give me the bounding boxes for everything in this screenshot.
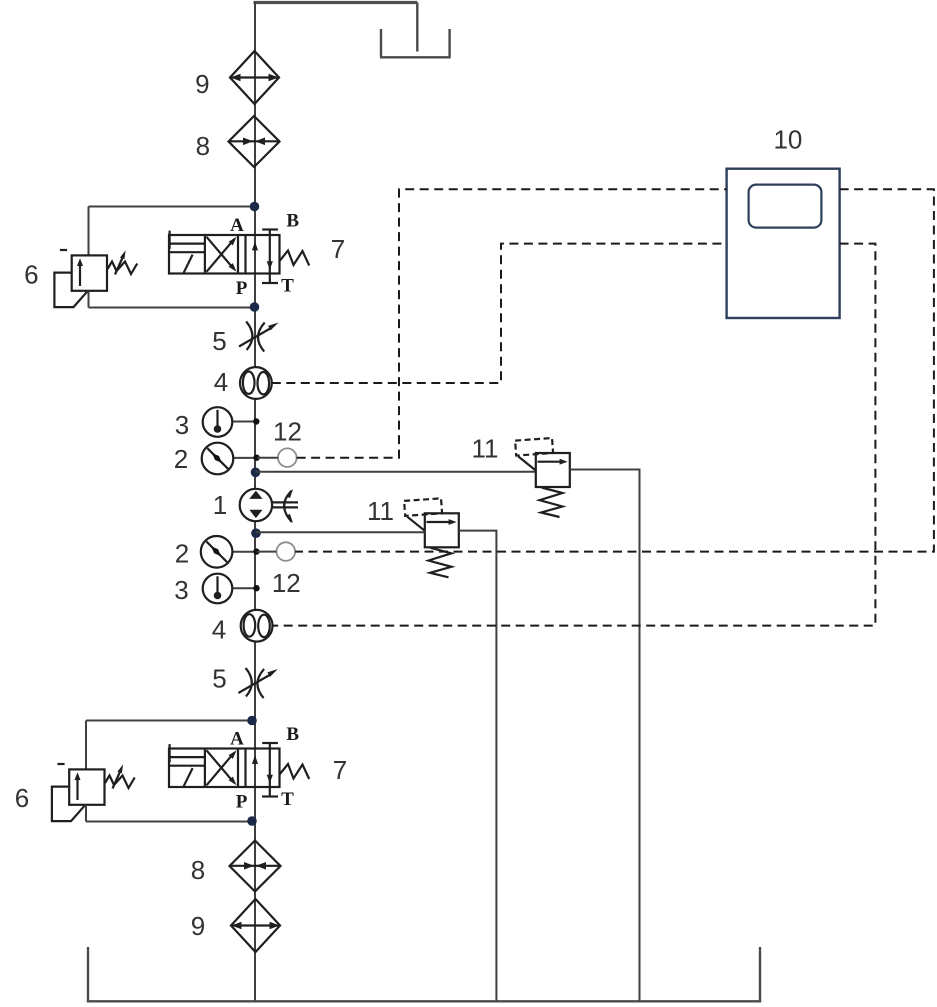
wire: top header line <box>254 1 418 4</box>
svg-text:4: 4 <box>212 615 226 645</box>
valve 7 proportional solenoid <box>169 231 171 249</box>
valve 7 body <box>169 235 280 274</box>
svg-text:8: 8 <box>196 131 210 161</box>
dashed control line: box 10 to sensor 12 lower (right outer run) <box>295 189 934 551</box>
wire: valve 11 (upper) to drain vertical <box>570 470 640 1002</box>
throttle valve 5 (lower) <box>238 668 278 698</box>
junction to pressure gauge 2 (upper) <box>233 457 257 459</box>
svg-text:6: 6 <box>15 783 29 813</box>
filter 8 (upper, inward arrows) <box>229 116 280 167</box>
junction to thermometer 3 (upper) <box>232 421 257 423</box>
pressure gauge 2 (upper) <box>202 443 234 475</box>
valve 11 spring <box>540 488 563 518</box>
svg-text:10: 10 <box>773 125 802 155</box>
svg-text:T: T <box>281 276 294 297</box>
tank (bottom reservoir) <box>87 947 761 1001</box>
pump 1 rotation arc arrows <box>284 491 292 523</box>
flow meter 4 (upper) <box>240 367 272 399</box>
svg-text:2: 2 <box>174 444 188 474</box>
svg-text:12: 12 <box>272 568 301 598</box>
controller box 10 <box>727 169 840 318</box>
node: pump discharge (lower) <box>251 528 261 538</box>
filter 8 (lower, inward arrows) <box>230 841 281 892</box>
pump 1 shaft <box>272 501 298 503</box>
relief valve 6 (lower) with connecting wires <box>52 716 257 826</box>
svg-text:A: A <box>230 215 244 236</box>
svg-text:9: 9 <box>191 911 205 941</box>
sensor 12 (lower) <box>277 542 296 561</box>
svg-text:P: P <box>236 278 248 299</box>
wire: valve 11 (lower) to drain vertical <box>459 531 497 1002</box>
wire: main vertical line segment (flow meter 4 to pump 1) <box>254 399 256 489</box>
wire: drop leg into top tank <box>416 3 418 52</box>
relief valve 6 pilot loop <box>54 273 87 308</box>
relief valve 6 adjust arrow <box>115 256 124 275</box>
svg-text:5: 5 <box>212 326 226 356</box>
sensor 12 (upper) <box>278 448 297 467</box>
svg-text:1: 1 <box>213 490 227 520</box>
wire: junction to sensor 12 (upper) <box>257 457 278 459</box>
minus mark <box>60 249 67 251</box>
thermometer 3 (lower) <box>203 574 233 604</box>
wire: junction to sensor 12 (lower) <box>257 551 276 553</box>
valve 7 crossed-flow cell <box>207 237 235 269</box>
node: pump suction (upper) <box>251 468 261 478</box>
pilot relief valve 11 (lower) <box>404 498 459 577</box>
valve 7 spring <box>280 251 310 266</box>
svg-text:8: 8 <box>191 855 205 885</box>
wire: relief valve 6 bottom to node <box>88 291 90 308</box>
svg-text:3: 3 <box>174 575 188 605</box>
wire: main vertical line segment (flow meter 4 lower to bottom tank) <box>254 641 256 1001</box>
filter/exchanger 9 (lower, outward arrows) <box>231 899 280 952</box>
valve 7 B-T line with arrow <box>269 230 271 284</box>
svg-text:11: 11 <box>472 434 499 464</box>
svg-text:7: 7 <box>333 755 347 785</box>
thermometer 3 (upper) <box>203 407 233 437</box>
pump 1 (bidirectional) <box>240 489 298 523</box>
svg-text:9: 9 <box>195 69 209 99</box>
valve 11 pilot box (dashed, tilted) <box>515 438 553 456</box>
junction to pressure gauge 2 (lower) <box>232 551 256 553</box>
relief valve 6 spring <box>108 262 138 275</box>
svg-text:11: 11 <box>367 496 394 526</box>
svg-text:2: 2 <box>175 539 189 569</box>
directional valve 7 (upper) <box>168 211 309 300</box>
dashed control line: box 10 to flow meter 4 lower (right inner run) <box>272 244 875 626</box>
relief valve 6 flow arrow <box>79 264 81 287</box>
filter/exchanger 9 (upper, outward arrows) <box>230 51 279 104</box>
wire: node to relief valve 6 top <box>89 206 255 208</box>
svg-text:7: 7 <box>331 234 345 264</box>
svg-text:4: 4 <box>214 367 228 397</box>
svg-text:6: 6 <box>24 260 38 290</box>
dashed control line: flow meter 4 upper to box 10 (second run) <box>272 244 727 383</box>
junction to thermometer 3 (lower) <box>232 587 257 589</box>
wire: node to pilot relief valve 11 (lower) <box>256 531 425 533</box>
wire: main vertical line segment (top to flow meter 4 upper) <box>254 2 256 367</box>
directional valve 7 (lower) <box>168 724 309 813</box>
svg-text:B: B <box>286 211 299 232</box>
valve 7 cell dividers <box>204 235 206 274</box>
tank (top reservoir) <box>380 29 451 57</box>
throttle valve 5 (upper) <box>239 322 279 352</box>
svg-text:3: 3 <box>175 410 189 440</box>
flow meter 4 (lower) <box>241 610 273 642</box>
pressure gauge 2 (lower) <box>201 536 233 568</box>
wire: main vertical line segment (pump 1 to flow meter 4 lower) <box>254 521 256 610</box>
svg-text:5: 5 <box>212 664 226 694</box>
node (P side) <box>250 202 260 212</box>
relief valve 6 body <box>72 255 107 290</box>
node (T side) <box>250 302 260 312</box>
pilot relief valve 11 (upper) <box>515 438 570 517</box>
valve 7 P-A arrow on main line <box>252 242 258 251</box>
dashed control line: sensor 12 upper to box 10 (top run) <box>297 189 727 457</box>
svg-text:12: 12 <box>273 417 302 447</box>
controller box 10 screen <box>749 185 822 228</box>
wire: node to pilot relief valve 11 (upper) <box>256 471 536 473</box>
relief valve 6 (upper) with connecting wires <box>54 202 259 312</box>
